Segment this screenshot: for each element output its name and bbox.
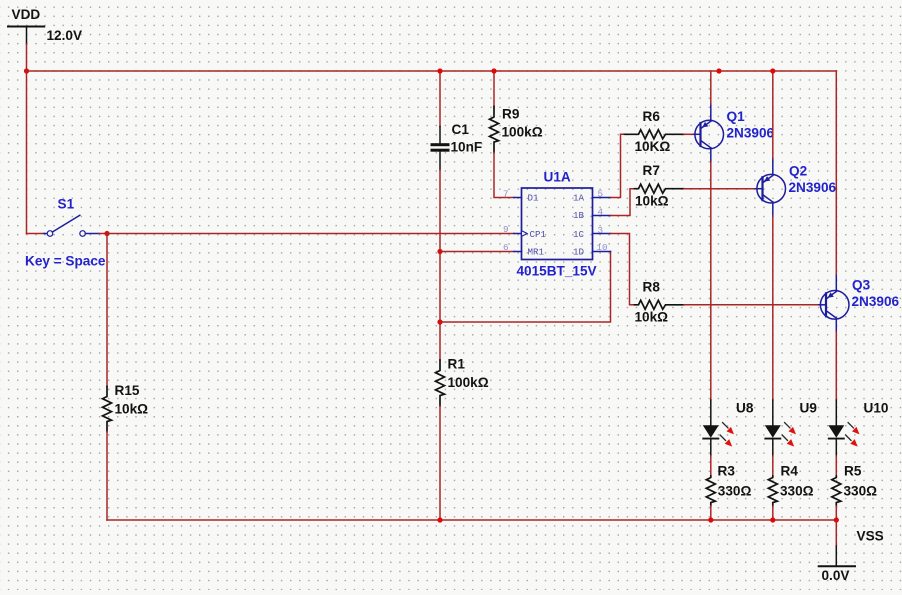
svg-text:U1A: U1A [544,170,571,185]
pin 1D stub [593,251,611,253]
node R9 top junction [491,68,496,73]
switch S1 [25,197,106,269]
wire MR1 row to chip [440,251,514,253]
wire pin 1A up to R6 [611,134,625,197]
resistor R5 [832,464,877,507]
wire R3 to bottom rail [710,506,712,520]
LED U9 [765,400,818,456]
svg-text:R15: R15 [115,383,140,398]
wire rail to VSS [835,520,837,546]
wire into S1 [27,233,45,235]
svg-text:U9: U9 [800,401,818,416]
svg-text:Q1: Q1 [727,109,746,124]
svg-text:CP1: CP1 [530,229,547,240]
svg-text:1D: 1D [573,247,585,258]
svg-text:VDD: VDD [12,7,41,22]
svg-text:330Ω: 330Ω [844,484,878,499]
svg-text:1B: 1B [573,210,585,221]
wire R9 to pin D1 [494,153,514,198]
resistor R9 [490,107,543,153]
wire R4 to bottom rail [772,506,774,520]
wire S1 to node [99,233,107,235]
wire VDD stem down to switch row [26,44,28,234]
svg-text:VSS: VSS [857,529,884,544]
ground VSS [819,529,884,584]
svg-text:2N3906: 2N3906 [852,294,900,309]
svg-text:10kΩ: 10kΩ [635,310,669,325]
transistor Q1 2N3906 [694,104,775,162]
resistor R8 [635,280,685,325]
svg-text:330Ω: 330Ω [718,484,752,499]
wire Q3 collector to LED U10 [835,332,837,400]
svg-text:MR1: MR1 [528,247,545,258]
LED U10 [828,400,888,456]
svg-text:Key = Space: Key = Space [25,254,106,269]
resistor R15 [103,383,149,432]
node rail junction at Q2 [770,68,775,73]
svg-text:100kΩ: 100kΩ [448,375,489,390]
svg-text:10nF: 10nF [451,140,483,155]
resistor R6 [625,109,685,154]
svg-text:1A: 1A [573,193,585,204]
svg-text:U8: U8 [736,401,754,416]
svg-text:330Ω: 330Ω [780,484,814,499]
svg-text:4015BT_15V: 4015BT_15V [517,264,597,279]
svg-text:R3: R3 [718,464,736,479]
wire Q1 collector to LED U8 [710,162,712,400]
svg-text:C1: C1 [452,122,470,137]
svg-text:0.0V: 0.0V [822,568,850,583]
svg-text:R8: R8 [643,280,661,295]
svg-text:Q3: Q3 [852,278,871,293]
wire Q1 emitter to rail [710,71,712,104]
wire CP1 row to chip [107,233,514,235]
svg-text:R9: R9 [502,107,520,122]
transistor Q2 2N3906 [756,158,837,216]
svg-text:R4: R4 [781,464,799,479]
wire C1 down the column to bottom rail [439,170,441,360]
wire R5 to bottom rail [835,506,837,520]
svg-text:U10: U10 [864,401,889,416]
wire pin 1B up to R7 [611,189,635,216]
wire pin 1C down to R8 [611,234,635,305]
svg-text:R5: R5 [844,464,862,479]
pin D1 stub [514,197,522,199]
node MR1 tap junction [437,249,442,254]
wire rail to R9 [493,71,495,107]
wire Q3 emitter to rail [835,71,837,274]
wire down to R15 [106,234,108,387]
wire R1 to bottom rail [439,406,441,520]
svg-text:10kΩ: 10kΩ [635,193,669,208]
svg-text:6: 6 [503,242,509,253]
wire U10 to R5 [835,456,837,476]
node bottom rail junction U9 column [770,517,775,522]
pin 1C stub [593,233,611,235]
resistor R1 [436,357,489,407]
svg-text:10KΩ: 10KΩ [635,139,671,154]
pin 1A stub [593,197,611,199]
wire R15 to bottom rail [106,432,108,521]
node rail junction near Q1 [716,68,721,73]
pin MR1 stub [514,251,522,253]
capacitor C1 [431,122,483,170]
wire U9 to R4 [772,456,774,476]
wire bottom VSS rail [107,519,836,521]
svg-text:100kΩ: 100kΩ [502,125,543,140]
svg-text:5: 5 [598,189,604,200]
svg-text:Q2: Q2 [789,163,808,178]
node C1 column bottom junction [437,517,442,522]
svg-text:2N3906: 2N3906 [727,126,775,141]
wire R7 to Q2 base [684,188,756,190]
resistor R3 [706,464,751,507]
node bottom rail junction VSS column [834,517,839,522]
node bottom rail junction U8 column [708,517,713,522]
resistor R7 [635,163,685,208]
wire U8 to R3 [710,456,712,476]
svg-text:10kΩ: 10kΩ [115,402,149,417]
wire R6 to Q1 base [684,133,694,135]
svg-text:7: 7 [503,189,509,200]
resistor R4 [768,464,813,507]
svg-text:3: 3 [598,225,604,236]
wire Q2 emitter to rail [772,71,774,158]
svg-text:1C: 1C [573,229,585,240]
op-amp U1A 4015BT_15V shift register [517,170,597,279]
pin 1B stub [593,215,611,217]
svg-text:9: 9 [503,224,509,235]
svg-text:10: 10 [597,242,608,253]
wire 1D feedback from pin 10 [440,252,611,323]
wire top VDD rail [27,70,837,72]
power VDD [8,7,82,44]
node C1 top junction [437,68,442,73]
svg-text:S1: S1 [58,197,75,212]
wire R8 to Q3 base [684,304,819,306]
svg-text:12.0V: 12.0V [47,28,83,43]
node S1 output junction [104,231,109,236]
wire top rail to C1 [439,71,441,127]
svg-text:R1: R1 [448,357,466,372]
wire Q2 collector to LED U9 [772,216,774,400]
svg-text:4: 4 [598,207,604,218]
node 1D feedback junction [437,319,442,324]
node top-left junction [24,68,29,73]
svg-text:2N3906: 2N3906 [789,180,837,195]
svg-text:D1: D1 [528,193,540,204]
svg-text:R6: R6 [643,109,661,124]
LED U8 [703,400,754,456]
svg-text:R7: R7 [643,163,660,178]
pin CP1 stub [514,231,527,237]
transistor Q3 2N3906 [819,274,900,332]
